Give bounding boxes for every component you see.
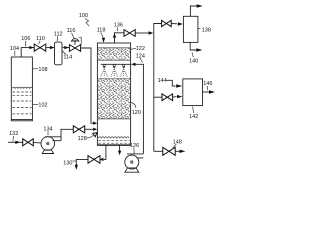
svg-text:144: 144 bbox=[158, 78, 167, 84]
vessel 112 bbox=[55, 42, 63, 65]
flow arrow into trunk junction bbox=[149, 31, 154, 34]
svg-text:108: 108 bbox=[38, 67, 47, 73]
flow arrow 140 bbox=[196, 48, 202, 51]
spray nozzle 1 bbox=[103, 65, 105, 67]
svg-text:146: 146 bbox=[203, 81, 212, 87]
wire: right trunk line bbox=[154, 24, 161, 34]
svg-text:116: 116 bbox=[67, 28, 76, 34]
wire after valve 148 bbox=[175, 150, 179, 152]
svg-text:130: 130 bbox=[63, 160, 72, 166]
valve (feed 132) bbox=[23, 139, 28, 146]
wire: column drain to valve 130 bbox=[104, 145, 106, 159]
spray nozzle 2 bbox=[113, 65, 115, 67]
flow arrow down into pump 126 bbox=[118, 151, 121, 156]
valve 136 bbox=[124, 30, 130, 37]
svg-text:128: 128 bbox=[78, 136, 87, 142]
flow arrow into valve 110 bbox=[29, 46, 33, 49]
wire: riser from vessel 104 to valve 110 bbox=[21, 48, 34, 57]
svg-text:140: 140 bbox=[189, 59, 198, 65]
wire to column bbox=[85, 128, 94, 130]
pump 126 base bbox=[125, 168, 139, 172]
wire: trunk bottom elbow to valve 148 bbox=[154, 150, 163, 152]
sump liquid dashes bbox=[98, 140, 129, 142]
flow arrow 130 down bbox=[75, 165, 78, 170]
valve (overhead to vessel 138) bbox=[162, 20, 167, 26]
svg-text:142: 142 bbox=[189, 114, 198, 120]
pump 134 base bbox=[42, 150, 53, 154]
svg-text:120: 120 bbox=[132, 110, 141, 116]
svg-text:100: 100 bbox=[79, 13, 88, 19]
flow arrow into drain valve bbox=[100, 158, 104, 161]
valve (pump 134 discharge) bbox=[73, 126, 79, 133]
wire: valve to vessel 138 bbox=[171, 23, 177, 25]
wire: valve to pump 134 bbox=[33, 142, 41, 144]
flow arrow into vessel 142 lower inlet bbox=[173, 96, 177, 99]
wire: overhead line from column top to valve 136 bbox=[115, 33, 125, 43]
flow arrow up into overhead line bbox=[113, 33, 116, 37]
flow arrow into absorber lower inlet bbox=[93, 128, 97, 131]
svg-text:122: 122 bbox=[136, 46, 145, 52]
absorber column 118 bbox=[97, 43, 130, 145]
flow arrow 148 outlet bbox=[180, 150, 186, 153]
valve 110 bbox=[34, 44, 40, 51]
vessel 138 bbox=[183, 16, 198, 42]
flow arrow into valve 116 bbox=[64, 46, 68, 49]
pump 134 bbox=[41, 137, 55, 151]
wire: valve 136 to trunk bbox=[135, 32, 150, 34]
liquid surface in 104 bbox=[12, 87, 32, 88]
leader squiggle for 100 bbox=[85, 19, 89, 27]
wire: feed 132 to valve bbox=[8, 141, 23, 143]
packing section 120 bbox=[98, 79, 130, 119]
liquid dashes in 104 bbox=[13, 91, 32, 93]
wire: vessel 112 to valve 116 bbox=[62, 47, 69, 49]
wire: drain valve to outlet 130 bbox=[76, 159, 88, 165]
valve 116 (control valve) bbox=[69, 45, 75, 52]
drain valve (130) bbox=[88, 156, 94, 164]
svg-text:112: 112 bbox=[54, 32, 63, 38]
sump liquid surface bbox=[98, 137, 129, 138]
vessel 142 bbox=[183, 79, 203, 106]
svg-text:114: 114 bbox=[63, 54, 72, 60]
flow arrow 138 top outlet bbox=[197, 4, 203, 7]
label 138 bbox=[198, 28, 201, 30]
wire: vessel 138 bottom outlet 140 bbox=[190, 42, 196, 50]
wire: vessel 142 outlet 146 bbox=[203, 91, 210, 93]
flow arrow into vessel 138 bbox=[178, 22, 183, 25]
wire: pump 126 riser to spray header bbox=[135, 64, 143, 154]
flow arrow 144 into vessel 142 bbox=[176, 84, 182, 87]
wire: pump 134 to absorber lower inlet bbox=[61, 129, 73, 140]
wire: valve 116 to absorber top inlet bbox=[81, 48, 94, 123]
wire: column sump to pump 126 bbox=[119, 145, 121, 151]
wire: valve 110 to vessel 112 bbox=[46, 47, 55, 49]
flow arrow into absorber upper inlet bbox=[93, 122, 97, 125]
vessel 104 bbox=[11, 57, 32, 121]
flow arrow into spray header bbox=[131, 63, 136, 66]
spray nozzle 3 bbox=[123, 65, 125, 67]
flow arrow into valve (132) bbox=[15, 141, 20, 144]
spray header 124 bbox=[101, 63, 131, 65]
pump 126 bbox=[125, 155, 139, 169]
svg-text:136: 136 bbox=[114, 23, 123, 29]
flow arrow 146 bbox=[209, 90, 215, 93]
svg-text:138: 138 bbox=[202, 27, 211, 33]
valve 148 bbox=[163, 147, 169, 155]
flow arrow into vessel 112 bbox=[50, 46, 54, 49]
svg-text:148: 148 bbox=[173, 139, 182, 145]
wire: stream 144 into vessel 142 bbox=[167, 80, 176, 86]
wire: trunk branch to valve near 142 bbox=[154, 96, 162, 98]
packing section 122 bbox=[98, 48, 130, 60]
wire: vessel 138 top outlet bbox=[190, 6, 197, 16]
valve (to vessel 142) bbox=[162, 94, 167, 101]
svg-text:102: 102 bbox=[38, 103, 47, 109]
svg-text:126: 126 bbox=[130, 143, 139, 149]
